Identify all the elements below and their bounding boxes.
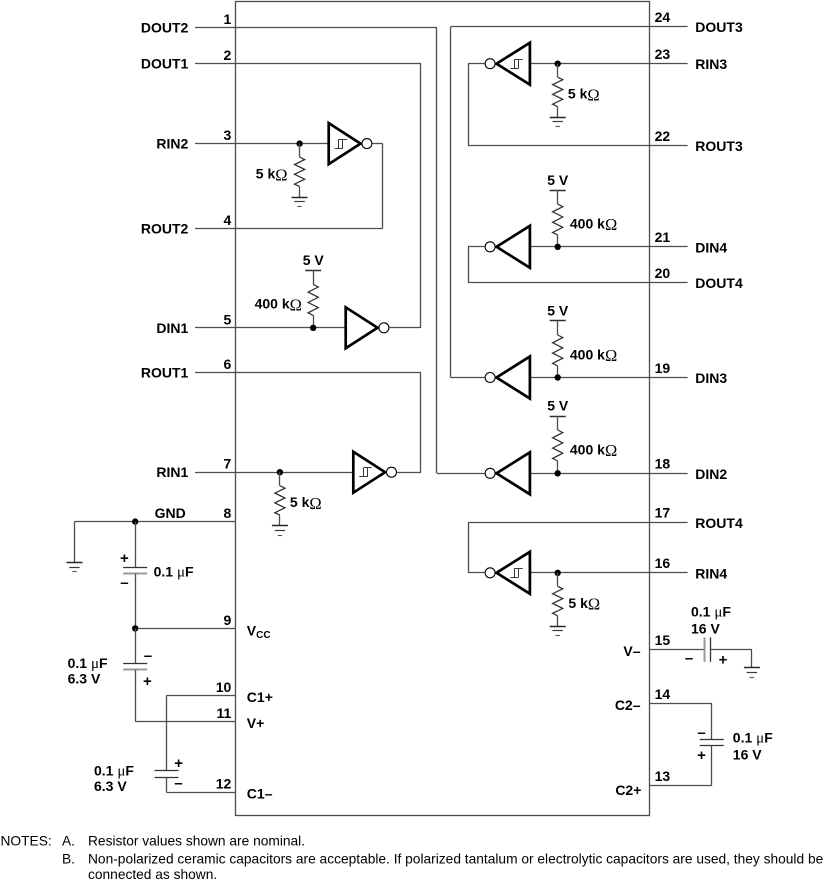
wire GND junction down to capacitor C1	[135, 522, 137, 568]
resistor 5 kOhm (RIN2 pulldown)	[299, 144, 301, 158]
svg-text:+: +	[174, 755, 183, 772]
svg-text:0.1 μF: 0.1 μF	[94, 763, 134, 780]
svg-text:DOUT4: DOUT4	[695, 275, 743, 291]
svg-text:24: 24	[655, 9, 671, 25]
wire pin 16 (RIN4)	[530, 572, 688, 574]
svg-text:V+: V+	[247, 715, 265, 731]
svg-text:C1+: C1+	[247, 689, 273, 705]
svg-text:11: 11	[216, 705, 231, 721]
wire pin 4 (ROUT2)	[195, 228, 383, 230]
svg-text:+: +	[143, 673, 152, 690]
svg-text:6.3 V: 6.3 V	[94, 778, 127, 794]
wire pin 5 (DIN1)	[195, 327, 346, 329]
svg-text:B.: B.	[62, 851, 75, 866]
svg-text:GND: GND	[155, 505, 186, 521]
svg-text:10: 10	[216, 679, 232, 695]
wire C1+ down to capacitor C3	[166, 695, 168, 771]
wire receiver D output to ROUT3	[468, 63, 485, 65]
capacitor 0.1 uF 6.3 V (C1+ to C1-)	[155, 770, 179, 772]
driver U1B (DIN1->DOUT1)	[346, 307, 378, 348]
svg-text:+: +	[719, 652, 728, 669]
svg-text:5 V: 5 V	[547, 172, 569, 188]
svg-text:1: 1	[224, 11, 232, 27]
svg-text:5 kΩ: 5 kΩ	[290, 494, 322, 513]
svg-text:21: 21	[655, 229, 671, 245]
svg-text:+: +	[697, 747, 706, 764]
svg-text:16 V: 16 V	[691, 621, 720, 637]
ground (GND pin)	[67, 562, 83, 564]
wire driver G output to DOUT2	[437, 473, 485, 475]
svg-text:–: –	[144, 648, 152, 665]
junction VCC / cap C2	[132, 625, 138, 631]
resistor 5 kOhm (RIN3 pulldown)	[557, 64, 559, 77]
5 V supply (DIN2 pull-up)	[550, 416, 566, 418]
wire pin 20 (DOUT4)	[468, 282, 688, 284]
wire pin 19 (DIN3)	[530, 377, 688, 379]
svg-text:DIN3: DIN3	[695, 370, 727, 386]
wire pin 3 (RIN2)	[195, 143, 329, 145]
capacitor 0.1 uF 16 V (V- filter)	[704, 637, 706, 662]
wire pin 17 (ROUT4)	[468, 522, 688, 524]
wire VCC junction down to capacitor C2	[135, 628, 137, 663]
junction DIN1 / pull-up	[310, 325, 316, 331]
svg-text:16 V: 16 V	[733, 747, 762, 763]
svg-text:9: 9	[224, 612, 232, 628]
wire pin 14 (C2-)	[650, 703, 712, 705]
ground (RIN4 pulldown)	[550, 626, 566, 628]
resistor 400 kOhm (DIN3 pull-up)	[557, 321, 559, 335]
junction DIN2 / pull-up	[555, 470, 561, 476]
driver U1E (DIN4->DOUT4)	[497, 226, 530, 268]
svg-text:ROUT3: ROUT3	[695, 138, 743, 154]
svg-text:400 kΩ: 400 kΩ	[570, 441, 617, 460]
ground (RIN3 pulldown)	[550, 117, 566, 119]
svg-text:–: –	[685, 650, 693, 667]
wire pin 6 (ROUT1)	[195, 372, 421, 374]
svg-text:DIN1: DIN1	[156, 320, 188, 336]
svg-text:18: 18	[655, 456, 671, 472]
wire pin 7 (RIN1)	[195, 472, 353, 474]
svg-text:DIN4: DIN4	[695, 239, 727, 255]
svg-text:–: –	[697, 724, 705, 741]
junction RIN3 / 5k pulldown	[555, 61, 561, 67]
wire pin 22 (ROUT3)	[468, 145, 688, 147]
svg-text:5 kΩ: 5 kΩ	[568, 595, 600, 614]
svg-text:Non-polarized ceramic capacito: Non-polarized ceramic capacitors are acc…	[88, 851, 824, 866]
svg-text:3: 3	[224, 127, 232, 143]
svg-text:400 kΩ: 400 kΩ	[570, 346, 617, 365]
receiver U1H (RIN4->ROUT4, schmitt)	[497, 552, 530, 594]
svg-text:0.1 μF: 0.1 μF	[733, 730, 773, 747]
svg-text:RIN3: RIN3	[695, 56, 727, 72]
wire driver E output to DOUT4	[468, 246, 485, 248]
wire pin 9 (VCC)	[135, 628, 236, 630]
svg-text:0.1 μF: 0.1 μF	[691, 604, 731, 621]
capacitor 0.1 uF 16 V (C2- to C2+)	[700, 739, 724, 741]
wire GND to chassis ground	[74, 522, 76, 563]
wire driver F output to DOUT3	[451, 377, 485, 379]
receiver U1D (RIN3->ROUT3, schmitt)	[497, 43, 530, 85]
svg-text:5 kΩ: 5 kΩ	[256, 165, 288, 184]
svg-text:ROUT1: ROUT1	[141, 364, 189, 380]
5 V supply (DIN1 pull-up)	[305, 270, 321, 272]
wire capacitor C4 to ground	[711, 649, 752, 651]
svg-text:A.: A.	[62, 834, 75, 849]
5 V supply (DIN4 pull-up)	[550, 190, 566, 192]
svg-text:400 kΩ: 400 kΩ	[570, 215, 617, 234]
wire capacitor C1 to VCC junction	[135, 574, 137, 629]
svg-text:16: 16	[655, 555, 671, 571]
svg-text:+: +	[120, 550, 129, 567]
svg-text:RIN2: RIN2	[156, 136, 188, 152]
wire pin 8 (GND)	[75, 521, 236, 523]
wire pin 10 (C1+)	[167, 695, 236, 697]
svg-text:2: 2	[224, 47, 232, 63]
ground (V- filter cap)	[744, 667, 760, 669]
wire pin 23 (RIN3)	[530, 63, 688, 65]
ground (RIN1 pulldown)	[272, 525, 288, 527]
svg-text:ROUT2: ROUT2	[141, 221, 189, 237]
svg-text:20: 20	[655, 265, 671, 281]
capacitor 0.1 uF (VCC bypass)	[123, 567, 147, 569]
svg-text:DOUT3: DOUT3	[695, 19, 743, 35]
junction RIN1 / 5k pulldown	[277, 469, 283, 475]
svg-text:5 kΩ: 5 kΩ	[568, 86, 600, 105]
wire capacitor C5 to pin 13 (C2+)	[711, 745, 713, 785]
svg-text:–: –	[120, 575, 128, 592]
svg-text:V–: V–	[623, 643, 640, 659]
receiver U1A (RIN2->ROUT2, schmitt)	[329, 123, 361, 164]
resistor 400 kOhm (DIN2 pull-up)	[557, 416, 559, 430]
junction RIN4 / 5k pulldown	[555, 570, 561, 576]
resistor 400 kOhm (DIN4 pull-up)	[557, 190, 559, 204]
junction DIN4 / pull-up	[555, 244, 561, 250]
5 V supply (DIN3 pull-up)	[550, 320, 566, 322]
svg-text:5 V: 5 V	[547, 303, 569, 319]
svg-text:12: 12	[216, 776, 232, 792]
svg-text:Resistor values shown are nomi: Resistor values shown are nominal.	[88, 834, 305, 849]
svg-text:19: 19	[655, 360, 671, 376]
wire driver B output to DOUT1	[389, 327, 421, 329]
svg-text:C1–: C1–	[247, 786, 273, 802]
ground (RIN2 pulldown)	[292, 197, 308, 199]
wire pin 15 (V-)	[650, 649, 705, 651]
svg-text:NOTES:: NOTES:	[1, 834, 52, 849]
wire capacitor C3 to pin 12 (C1-)	[166, 777, 168, 792]
svg-text:400 kΩ: 400 kΩ	[255, 296, 302, 315]
svg-text:6.3 V: 6.3 V	[68, 671, 101, 687]
driver U1F (DIN3->DOUT3)	[497, 357, 530, 399]
svg-text:0.1 μF: 0.1 μF	[154, 564, 194, 581]
svg-text:5: 5	[224, 311, 232, 327]
wire pin 21 (DIN4)	[530, 246, 688, 248]
svg-text:DOUT1: DOUT1	[141, 56, 189, 72]
svg-text:6: 6	[224, 356, 232, 372]
resistor 5 kOhm (RIN4 pulldown)	[557, 573, 559, 587]
svg-text:22: 22	[655, 128, 671, 144]
svg-text:C2+: C2+	[615, 782, 641, 798]
wire capacitor C2 to V+ rail	[135, 670, 137, 722]
wire receiver A output to ROUT2	[372, 143, 382, 145]
IC outline (24-pin device)	[236, 2, 650, 816]
svg-text:ROUT4: ROUT4	[695, 515, 743, 531]
svg-text:VCC: VCC	[247, 623, 271, 642]
wire C2- down to capacitor C5	[711, 703, 713, 739]
wire pin 1 (DOUT2)	[195, 27, 437, 29]
svg-text:14: 14	[655, 686, 671, 702]
wire pin 24 (DOUT3)	[451, 26, 688, 28]
svg-text:5 V: 5 V	[303, 252, 325, 268]
svg-text:DIN2: DIN2	[695, 466, 727, 482]
junction GND / bypass cap	[132, 518, 138, 524]
svg-text:4: 4	[224, 212, 232, 228]
svg-text:connected as shown.: connected as shown.	[88, 867, 217, 880]
svg-text:–: –	[174, 775, 182, 792]
svg-text:15: 15	[655, 632, 671, 648]
svg-text:23: 23	[655, 46, 671, 62]
capacitor 0.1 uF 6.3 V (VCC to V+)	[123, 663, 147, 665]
svg-text:7: 7	[224, 456, 232, 472]
svg-text:8: 8	[224, 505, 232, 521]
svg-text:RIN1: RIN1	[156, 464, 188, 480]
svg-text:5 V: 5 V	[547, 398, 569, 414]
svg-text:C2–: C2–	[615, 697, 641, 713]
junction RIN2 / 5k pulldown	[296, 140, 302, 146]
wire receiver H output to ROUT4	[468, 572, 485, 574]
junction DIN3 / pull-up	[555, 374, 561, 380]
wire pin 18 (DIN2)	[530, 473, 688, 475]
driver U1G (DIN2->DOUT2)	[497, 452, 530, 494]
svg-text:13: 13	[655, 768, 671, 784]
svg-text:17: 17	[655, 505, 671, 521]
svg-text:DOUT2: DOUT2	[141, 20, 189, 36]
resistor 400 kOhm (DIN1 pull-up)	[313, 270, 315, 284]
svg-text:0.1 μF: 0.1 μF	[68, 655, 108, 672]
svg-text:RIN4: RIN4	[695, 565, 727, 581]
wire receiver C output to ROUT1	[397, 472, 421, 474]
wire pin 2 (DOUT1)	[195, 63, 421, 65]
resistor 5 kOhm (RIN1 pulldown)	[279, 472, 281, 486]
receiver U1C (RIN1->ROUT1, schmitt)	[353, 452, 385, 493]
